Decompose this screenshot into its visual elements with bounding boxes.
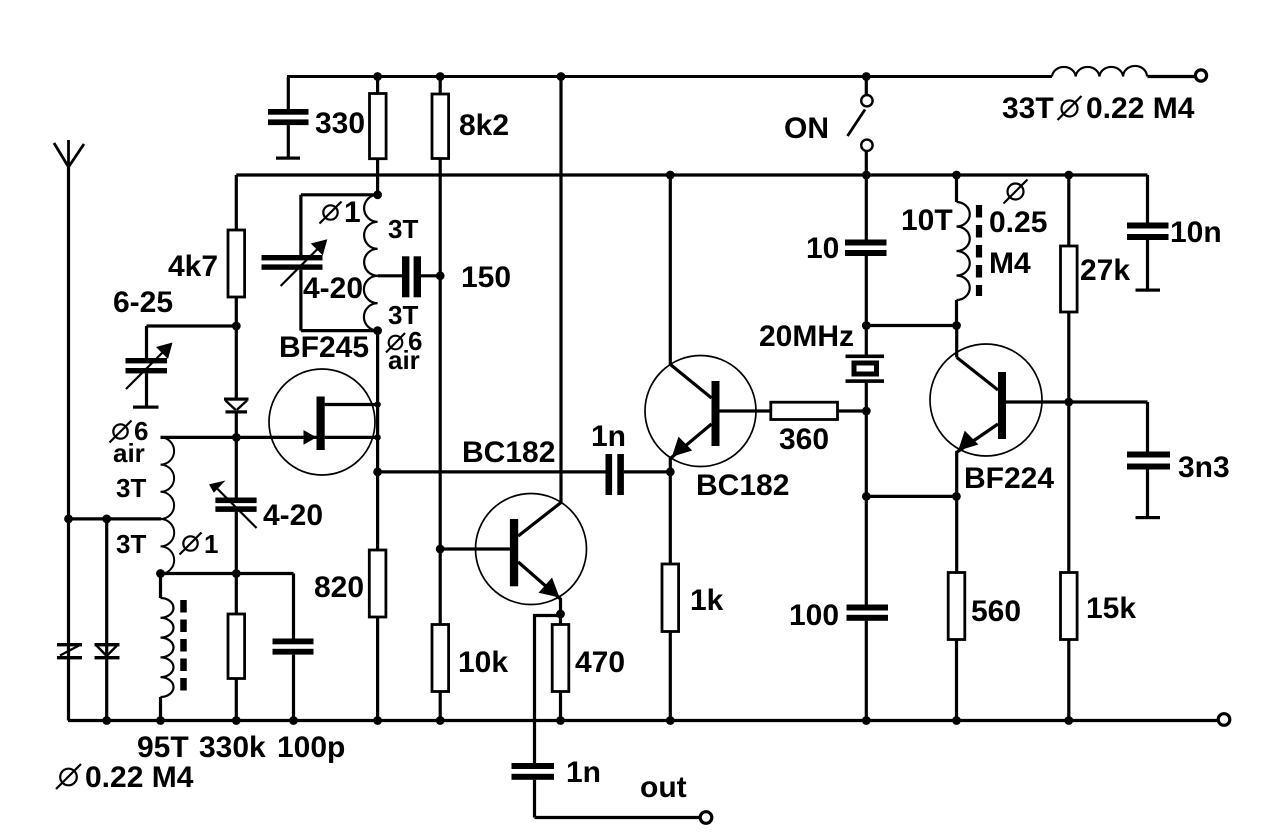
- svg-text:10: 10: [806, 232, 839, 265]
- svg-text:BC182: BC182: [462, 436, 555, 469]
- node x866 y496: [862, 492, 871, 501]
- svg-text:95T: 95T: [137, 731, 189, 764]
- node loop top junction: [373, 190, 382, 199]
- svg-text:100p: 100p: [277, 731, 345, 764]
- wire out horizontal: [535, 816, 701, 819]
- label phi 0.25 M4: [989, 180, 1047, 281]
- svg-text:3T: 3T: [116, 529, 146, 559]
- switch ON: [848, 77, 873, 176]
- inductor L5 10T: [957, 175, 970, 326]
- wire second rail (switched supply): [236, 173, 1147, 176]
- resistor R4 8k2: [432, 77, 449, 625]
- labels L3 annotations: [386, 214, 422, 375]
- node ground rail junctions: [102, 716, 1073, 725]
- wire y325 to 10T coil: [866, 324, 956, 327]
- svg-text:1n: 1n: [591, 420, 626, 453]
- wire out stub from emitter: [535, 616, 561, 764]
- wire D3 to gate node: [235, 414, 238, 438]
- resistor R11 27k: [1061, 175, 1078, 573]
- svg-text:4k7: 4k7: [168, 250, 218, 283]
- svg-text:1: 1: [344, 196, 361, 229]
- svg-text:0.22 M4: 0.22 M4: [1086, 92, 1195, 125]
- resistor R10 560: [948, 573, 965, 721]
- diode D2: [95, 643, 120, 659]
- wire bottom ground rail: [68, 719, 1218, 722]
- svg-text:820: 820: [314, 571, 364, 604]
- resistor R3 330: [370, 77, 387, 195]
- crystal X1 20MHz: [846, 355, 885, 605]
- capacitor C3 100p: [273, 574, 314, 721]
- capacitor C1 6-25 trimmer: [126, 326, 173, 409]
- svg-text:8k2: 8k2: [459, 109, 509, 142]
- core dashed line of L5: [976, 205, 982, 296]
- capacitor C2 4-20 trimmer (lower): [209, 437, 257, 573]
- node x866 y325: [862, 321, 871, 330]
- svg-text:BC182: BC182: [696, 469, 789, 502]
- label 33T 0.22 M4: [1002, 92, 1195, 125]
- wire 6-25 branch horizontal: [147, 324, 237, 327]
- resistor R7 470: [552, 625, 569, 721]
- svg-text:330: 330: [315, 107, 365, 140]
- node R3 top rail: [373, 72, 382, 81]
- resistor R2 330k: [228, 574, 245, 721]
- node x956 y325: [952, 321, 961, 330]
- terminal out: [700, 812, 712, 824]
- wire signal line y472 left: [378, 470, 606, 473]
- node base junction: [436, 545, 445, 554]
- node drain junction: [374, 401, 380, 407]
- wire L1 bottom to L2 top: [159, 574, 162, 599]
- wire coil tap to antenna line: [69, 517, 162, 520]
- svg-text:air: air: [388, 345, 420, 375]
- wire antenna vertical: [67, 167, 70, 721]
- node source output junction: [373, 468, 382, 477]
- wire x377 FET column: [376, 331, 379, 472]
- svg-text:1k: 1k: [690, 584, 724, 617]
- antenna symbol: [54, 140, 84, 170]
- svg-text:3n3: 3n3: [1178, 451, 1230, 484]
- node switch rail2: [862, 171, 871, 180]
- wire trimmer loop bottom: [301, 329, 378, 332]
- svg-text:3T: 3T: [116, 473, 146, 503]
- wire diode branch vertical: [105, 519, 108, 721]
- svg-text:27k: 27k: [1080, 254, 1130, 287]
- capacitor C4 330: [268, 77, 309, 160]
- labels coil L1 annotations: [110, 416, 219, 559]
- core dashed line of L2: [180, 600, 187, 691]
- node loop bottom junction: [373, 326, 382, 335]
- svg-text:M4: M4: [989, 247, 1031, 280]
- node x561 top rail: [557, 72, 566, 81]
- svg-text:4-20: 4-20: [263, 499, 323, 532]
- node rail2 x670: [666, 171, 675, 180]
- terminal antenna output top right: [1195, 70, 1206, 81]
- svg-text:0.25: 0.25: [989, 206, 1047, 239]
- svg-text:100: 100: [789, 599, 839, 632]
- node rail2 27k: [1064, 171, 1073, 180]
- inductor L2 95T winding: [161, 598, 174, 697]
- svg-text:4-20: 4-20: [303, 272, 363, 305]
- resistor R5 820: [369, 472, 386, 721]
- svg-text:20MHz: 20MHz: [759, 320, 854, 353]
- svg-text:ON: ON: [784, 112, 829, 145]
- terminal bottom right: [1218, 714, 1230, 726]
- svg-text:BF245: BF245: [279, 331, 369, 364]
- wire collector column x561: [559, 77, 562, 503]
- node source junction: [374, 434, 380, 440]
- capacitor C12 3n3: [1127, 402, 1170, 519]
- wire junction row y=573.5: [161, 572, 294, 575]
- inductor L4 33T 0.22 M4: [1052, 66, 1147, 77]
- node emitter junction x670: [666, 468, 675, 477]
- transistor Q3 BC182 (second): [645, 356, 771, 472]
- capacitor C10 100: [847, 605, 889, 721]
- node switch top rail: [862, 72, 871, 81]
- wire top supply rail: [287, 75, 1052, 78]
- svg-text:33T: 33T: [1002, 92, 1054, 125]
- svg-text:1: 1: [204, 529, 218, 559]
- capacitor C5 4-20 trimmer (upper): [262, 195, 328, 331]
- wire collector column x670: [669, 175, 672, 364]
- svg-text:3T: 3T: [388, 214, 418, 244]
- label phi1 top: [320, 196, 361, 229]
- svg-text:560: 560: [971, 595, 1021, 628]
- node L1/L2 junction: [156, 569, 165, 578]
- svg-text:330k: 330k: [199, 731, 266, 764]
- diode D1 (on antenna line): [57, 643, 82, 659]
- resistor R9 360 (horizontal): [771, 402, 867, 419]
- resistor R6 10k: [432, 625, 449, 721]
- capacitor C11 10n: [1127, 175, 1169, 292]
- transistor Q1 BF245: [269, 369, 378, 475]
- capacitor C7 1n coupling: [606, 454, 624, 495]
- wire trimmer loop top: [301, 193, 378, 196]
- transistor Q2 BC182 (first): [440, 494, 586, 625]
- node rail2 10T: [952, 171, 961, 180]
- resistor R12 15k: [1061, 573, 1078, 721]
- wire signal line y472 right: [624, 470, 670, 473]
- capacitor C8 1n output: [512, 763, 555, 818]
- svg-text:out: out: [640, 771, 687, 804]
- wire top rail right segment to terminal: [1148, 75, 1195, 78]
- svg-text:15k: 15k: [1086, 592, 1136, 625]
- node emitter junction x956: [952, 492, 961, 501]
- svg-text:BF224: BF224: [964, 462, 1054, 495]
- node x236/y573 junction: [232, 569, 241, 578]
- inductor L1 antenna coil 3T+3T: [161, 437, 175, 573]
- wire gate line from coil top to FET: [161, 436, 317, 439]
- svg-text:0.22 M4: 0.22 M4: [85, 761, 194, 794]
- node 150 to 8k2 line: [436, 271, 445, 280]
- svg-text:470: 470: [575, 646, 625, 679]
- node gate line / 236 line: [232, 433, 241, 442]
- svg-text:360: 360: [779, 423, 829, 456]
- diode D3 (gate clamp): [224, 398, 249, 414]
- resistor R1 4k7: [228, 175, 245, 398]
- resistor R8 1k: [662, 472, 679, 721]
- svg-text:10k: 10k: [458, 646, 508, 679]
- svg-text:150: 150: [461, 261, 511, 294]
- wire y496 emitter line: [866, 495, 956, 498]
- node base-27k junction: [1064, 398, 1073, 407]
- transistor Q4 BF224: [930, 326, 1148, 573]
- node emitter junction: [556, 610, 565, 619]
- node crystal-360 junction: [862, 407, 871, 416]
- node tap-antenna junction: [64, 515, 73, 524]
- capacitor C9 10: [845, 175, 887, 355]
- svg-text:10T: 10T: [901, 204, 953, 237]
- node tap-diode line junction: [102, 515, 111, 524]
- capacitor C6 150: [378, 256, 441, 297]
- svg-text:1n: 1n: [566, 756, 601, 789]
- label 0.22 M4 bottom: [56, 761, 194, 794]
- node R4 top rail: [436, 72, 445, 81]
- node 6-25 branch: [232, 322, 241, 331]
- inductor L3 3T+3T 0.6 air: [364, 195, 378, 331]
- wire L2 bottom to ground rail: [159, 697, 162, 721]
- svg-text:10n: 10n: [1170, 216, 1222, 249]
- svg-text:air: air: [113, 438, 145, 468]
- svg-text:6-25: 6-25: [113, 286, 173, 319]
